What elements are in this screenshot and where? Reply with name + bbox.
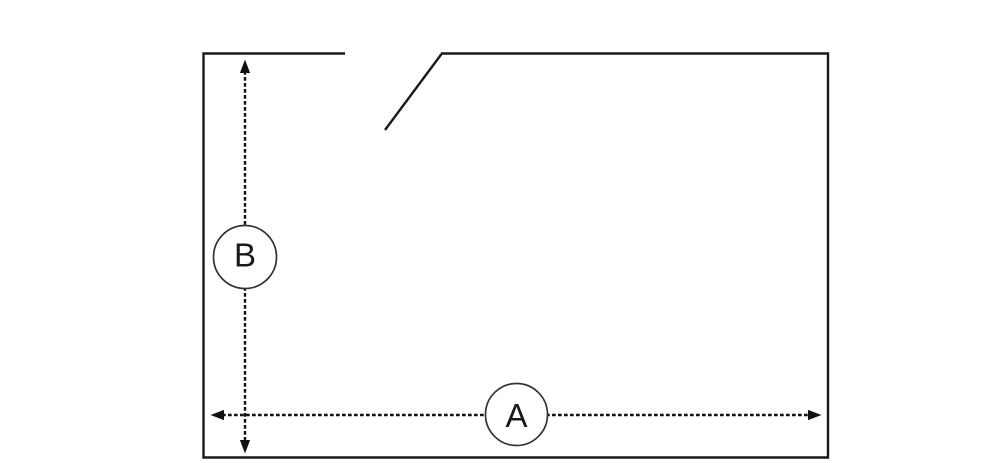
arrowhead A right: [808, 410, 822, 420]
dimension line B (vertical dashed): [244, 71, 246, 442]
label circle B: [214, 226, 277, 289]
arrowhead B top: [240, 60, 250, 74]
break line (diagonal tear mark): [385, 54, 442, 130]
label circle A: [486, 384, 548, 446]
dimension line A (horizontal dashed): [222, 414, 810, 416]
arrowhead A left: [211, 410, 225, 420]
arrowhead B bottom: [240, 440, 250, 454]
svg-text:A: A: [505, 397, 527, 434]
panel outline (left, bottom, right edges): [204, 54, 829, 458]
svg-text:B: B: [234, 237, 256, 274]
